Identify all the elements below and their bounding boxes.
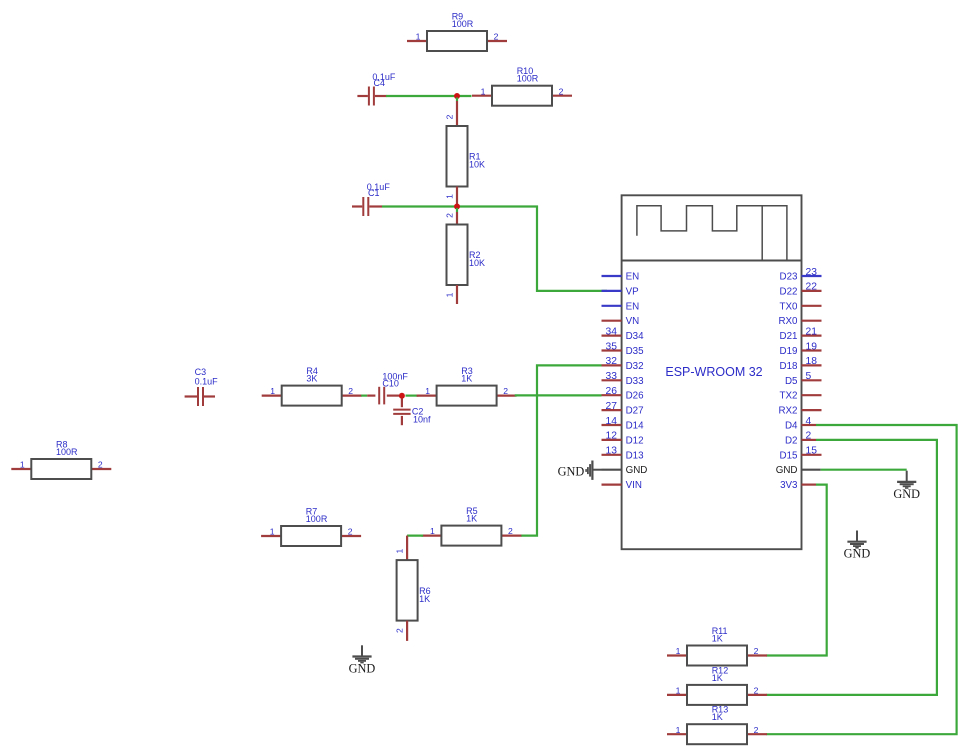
pin RX0 (right 4) of U1 [778,316,821,327]
pin D23 (right 1) of U1 [780,267,822,283]
svg-text:4: 4 [806,416,812,427]
svg-text:2: 2 [444,114,454,119]
resistor R1 [444,114,485,199]
svg-text:GND: GND [626,465,648,476]
svg-text:D23: D23 [780,272,799,283]
pin 3V3 (right 15) of U1 [780,480,816,491]
antenna meander of ESP-WROOM 32 [637,206,787,261]
resistor R11 [667,626,767,666]
svg-text:D15: D15 [780,450,799,461]
pin GND (right 14) of U1 [776,465,821,476]
pin VN (left 4) of U1 [602,316,640,327]
svg-text:1K: 1K [712,673,723,683]
svg-text:100R: 100R [452,19,474,29]
pin EN (left 1) of U1 [602,272,640,283]
svg-text:2: 2 [806,431,812,442]
pin EN (left 3) of U1 [602,301,640,312]
svg-text:26: 26 [606,386,618,397]
pin TX2 (right 9) of U1 [780,391,822,402]
resistor R7 [261,507,361,547]
pin D5 (right 8) of U1 [785,371,822,387]
pin D21 (right 5) of U1 [780,326,822,342]
wire R4 pin2 to C10 [361,395,375,397]
resistor R8 [11,440,111,480]
svg-text:2: 2 [508,526,513,536]
pin VIN (left 15) of U1 [602,480,642,491]
svg-text:1: 1 [444,194,454,199]
capacitor C1 [352,182,390,216]
svg-text:1: 1 [430,526,435,536]
wire R2 pin1 lead [456,285,458,304]
pin D2 (right 12) of U1 [785,431,816,447]
svg-text:GND: GND [844,547,871,561]
svg-text:15: 15 [806,446,818,457]
pin D13 (left 13) of U1 [602,446,645,462]
pin GND (left 14) of U1 [602,465,648,476]
svg-text:TX0: TX0 [780,301,799,312]
resistor R10 [472,66,572,106]
resistor R3 [417,366,517,406]
resistor R12 [667,665,767,705]
wire R1 pin1 lead [456,187,458,207]
svg-text:32: 32 [606,356,618,367]
svg-text:1: 1 [270,386,275,396]
svg-text:EN: EN [626,301,640,312]
svg-text:D19: D19 [780,346,798,357]
svg-text:GND: GND [558,465,585,479]
svg-text:C3: C3 [195,367,207,377]
svg-text:1: 1 [676,725,681,735]
svg-text:2: 2 [444,213,454,218]
ground GND symbol floating below U1 [844,531,871,561]
svg-text:3V3: 3V3 [780,480,798,491]
pin D19 (right 6) of U1 [780,341,822,357]
svg-text:D5: D5 [785,376,798,387]
svg-text:35: 35 [606,341,618,352]
junction node at C1/R1/R2 [454,204,460,210]
pin D22 (right 2) of U1 [780,282,822,298]
wire R2 pin2 lead [456,208,458,225]
svg-text:100R: 100R [517,74,539,84]
wire net D4-R13 [766,425,956,734]
ground GND symbol lower-left [349,645,376,675]
svg-text:2: 2 [503,386,508,396]
svg-text:2: 2 [494,32,499,42]
wire net GND right [821,469,907,471]
wire net R3-D26 [515,394,602,396]
svg-text:D22: D22 [780,286,798,297]
svg-text:1: 1 [676,646,681,656]
svg-text:GND: GND [893,487,920,501]
pin D4 (right 11) of U1 [785,416,816,432]
pin D27 (left 10) of U1 [602,401,644,417]
resistor R4 [262,366,362,406]
svg-text:1K: 1K [712,712,723,722]
svg-text:C10: C10 [382,379,399,389]
svg-text:VIN: VIN [626,480,642,491]
junction node at C4/R10/R1 [454,93,460,99]
svg-text:D26: D26 [626,391,645,402]
svg-text:2: 2 [348,386,353,396]
wire R6 pin2 lead [406,621,408,641]
ground GND symbol at right GND net [893,471,920,501]
svg-text:1K: 1K [461,374,472,384]
pin D14 (left 11) of U1 [602,416,645,432]
svg-text:1K: 1K [466,514,477,524]
pin VP (left 2) of U1 [602,286,640,297]
svg-text:D33: D33 [626,376,645,387]
resistor R9 [407,12,507,52]
wire R6 pin1 lead [406,536,408,561]
svg-text:RX0: RX0 [778,316,798,327]
svg-text:VN: VN [626,316,640,327]
pin D15 (right 13) of U1 [780,446,822,462]
svg-text:13: 13 [606,446,618,457]
svg-text:1: 1 [676,686,681,696]
svg-text:100R: 100R [56,447,78,457]
svg-text:23: 23 [806,267,818,278]
svg-text:3K: 3K [306,374,317,384]
svg-text:D32: D32 [626,361,644,372]
wire R1 pin2 lead [456,98,458,127]
pin D34 (left 5) of U1 [602,326,645,342]
svg-text:D18: D18 [780,361,799,372]
pin RX2 (right 10) of U1 [778,406,821,417]
svg-text:2: 2 [98,460,103,470]
svg-text:C4: C4 [374,78,386,88]
pin D18 (right 7) of U1 [780,356,822,372]
svg-text:D14: D14 [626,421,645,432]
resistor R13 [667,705,767,745]
svg-text:2: 2 [754,725,759,735]
svg-text:0.1uF: 0.1uF [195,377,219,387]
resistor R6 [395,548,431,633]
pin D32 (left 7) of U1 [602,356,644,372]
svg-text:EN: EN [626,272,640,283]
wire net 3V3-R11 [766,485,826,656]
svg-text:D35: D35 [626,346,645,357]
svg-text:1K: 1K [419,594,430,604]
wire junction to R3 pin1 [406,395,419,397]
svg-text:1: 1 [20,460,25,470]
svg-text:18: 18 [806,356,818,367]
svg-text:100R: 100R [306,514,328,524]
svg-text:10nf: 10nf [413,415,431,425]
pin TX0 (right 3) of U1 [780,301,822,312]
svg-text:14: 14 [606,416,618,427]
capacitor C3 [185,367,219,406]
wire R5 pin1 to R6 [407,534,423,536]
svg-text:1: 1 [395,548,405,553]
svg-text:D13: D13 [626,450,645,461]
svg-text:27: 27 [606,401,618,412]
svg-text:12: 12 [606,431,618,442]
pin D26 (left 9) of U1 [602,386,645,402]
svg-text:10K: 10K [469,258,485,268]
svg-text:2: 2 [395,628,405,633]
resistor R2 [444,213,485,298]
svg-text:D21: D21 [780,331,798,342]
svg-text:VP: VP [626,286,640,297]
svg-text:1K: 1K [712,634,723,644]
svg-text:D27: D27 [626,406,644,417]
svg-text:1: 1 [425,386,430,396]
capacitor C10 [379,371,408,404]
pin D33 (left 8) of U1 [602,371,645,387]
svg-text:22: 22 [806,282,818,293]
svg-text:2: 2 [348,527,353,537]
svg-text:10K: 10K [469,160,485,170]
capacitor C4 [357,72,396,106]
svg-text:D12: D12 [626,435,644,446]
svg-text:D4: D4 [785,421,798,432]
ESP-WROOM 32 module U1 [622,195,802,549]
svg-text:2: 2 [754,646,759,656]
svg-text:2: 2 [559,86,564,96]
svg-text:C1: C1 [368,188,380,198]
svg-text:1: 1 [416,32,421,42]
svg-text:GND: GND [349,662,376,676]
resistor R5 [421,506,521,546]
wire net D32-R5 [521,365,602,535]
svg-text:19: 19 [806,341,818,352]
capacitor C2 [393,398,431,425]
svg-text:1: 1 [444,292,454,297]
svg-text:D2: D2 [785,435,798,446]
svg-text:1: 1 [481,86,486,96]
pin D35 (left 6) of U1 [602,341,645,357]
svg-text:5: 5 [806,371,812,382]
wire net C4-R10-R1 [386,95,472,97]
svg-text:GND: GND [776,465,798,476]
svg-text:21: 21 [806,326,818,337]
svg-text:D34: D34 [626,331,645,342]
pin D12 (left 12) of U1 [602,431,644,447]
svg-text:2: 2 [754,686,759,696]
ground GND symbol at U1 left GND pin [558,461,602,480]
junction node C10/R3/C2 [399,393,405,399]
svg-text:TX2: TX2 [780,391,798,402]
svg-text:33: 33 [606,371,618,382]
wire net D2-R12 [766,440,937,695]
svg-text:ESP-WROOM 32: ESP-WROOM 32 [665,365,762,379]
svg-text:34: 34 [606,326,618,337]
wire net C1-R1-R2-VP [382,207,607,291]
svg-text:1: 1 [270,527,275,537]
svg-text:RX2: RX2 [778,406,797,417]
